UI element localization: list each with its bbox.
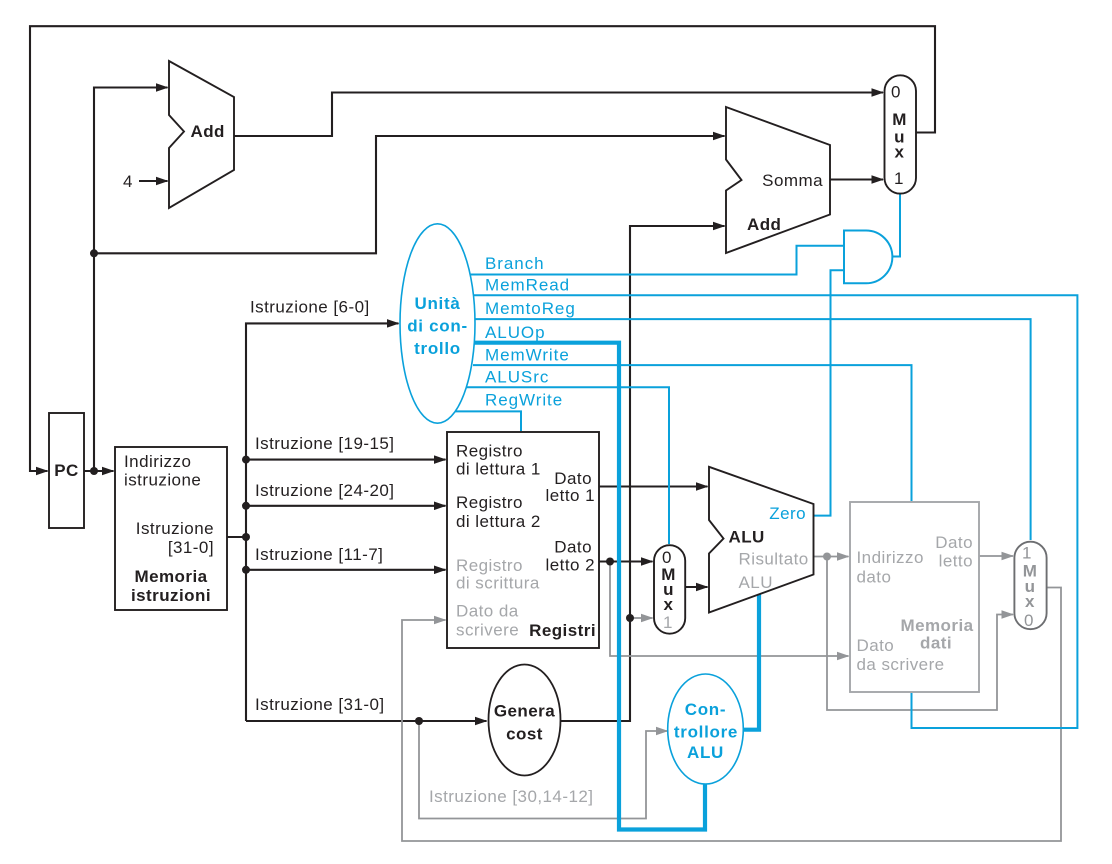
svg-text:Memoria: Memoria bbox=[134, 567, 207, 586]
wire Add output stepped to top Mux input 0 bbox=[234, 93, 883, 137]
wire Istruzione [31-0] to immediate generator bbox=[246, 720, 487, 722]
svg-text:x: x bbox=[895, 143, 905, 162]
svg-text:dati: dati bbox=[920, 634, 952, 653]
svg-text:MemWrite: MemWrite bbox=[485, 346, 570, 365]
junction dot PC output bbox=[90, 467, 98, 475]
svg-text:letto: letto bbox=[939, 552, 973, 571]
svg-text:MemRead: MemRead bbox=[485, 276, 570, 295]
svg-text:PC: PC bbox=[54, 461, 79, 480]
svg-text:Dato: Dato bbox=[935, 533, 973, 552]
junction dot instr 19-15 bbox=[242, 456, 250, 464]
wire cyan RegWrite signal to registers bbox=[455, 411, 521, 431]
svg-text:dato: dato bbox=[857, 568, 892, 587]
svg-text:trollore: trollore bbox=[674, 723, 738, 742]
svg-text:di lettura 1: di lettura 1 bbox=[456, 460, 541, 479]
svg-text:scrivere: scrivere bbox=[456, 621, 519, 640]
svg-text:ALUOp: ALUOp bbox=[485, 323, 546, 342]
svg-text:di scrittura: di scrittura bbox=[456, 574, 540, 593]
svg-text:RegWrite: RegWrite bbox=[485, 391, 563, 410]
ALU bbox=[709, 467, 814, 613]
svg-text:1: 1 bbox=[1022, 544, 1032, 563]
svg-text:0: 0 bbox=[1024, 611, 1034, 630]
svg-text:1: 1 bbox=[894, 169, 904, 188]
svg-text:Unità: Unità bbox=[415, 294, 461, 313]
immediate generator ellipse bbox=[489, 665, 561, 776]
junction dot instr 24-20 bbox=[242, 502, 250, 510]
mux top (PC source) bbox=[885, 75, 917, 193]
svg-text:istruzione: istruzione bbox=[124, 471, 201, 490]
wire gray Dato letto 2 down to data memory write data bbox=[610, 562, 849, 657]
svg-text:Istruzione [30,14-12]: Istruzione [30,14-12] bbox=[429, 787, 593, 806]
wire gray write-back from right mux to register write data bbox=[402, 588, 1061, 842]
svg-text:Registro: Registro bbox=[456, 556, 523, 575]
svg-text:Genera: Genera bbox=[494, 702, 555, 721]
svg-text:Istruzione [11-7]: Istruzione [11-7] bbox=[255, 545, 383, 564]
svg-text:da scrivere: da scrivere bbox=[857, 655, 945, 674]
wire PC value up to Add (vertical x=94) bbox=[94, 88, 168, 472]
wire immediate generator output up to Somma bottom input bbox=[561, 226, 725, 721]
svg-text:ALU: ALU bbox=[729, 528, 765, 547]
svg-text:x: x bbox=[1025, 592, 1035, 611]
wire instruction bus vertical with branch to control unit bbox=[246, 323, 399, 721]
svg-text:MemtoReg: MemtoReg bbox=[485, 299, 576, 318]
svg-text:Branch: Branch bbox=[485, 254, 545, 273]
svg-text:x: x bbox=[664, 595, 674, 614]
svg-text:Istruzione [24-20]: Istruzione [24-20] bbox=[255, 481, 394, 500]
junction dot gray ALU result bbox=[823, 553, 831, 561]
svg-text:cost: cost bbox=[506, 725, 543, 744]
junction dot instr 31-0 bottom bbox=[415, 717, 423, 725]
svg-text:istruzioni: istruzioni bbox=[131, 586, 211, 605]
wire cyan AND gate output to top mux select bbox=[893, 194, 901, 257]
junction dot instr 11-7 bbox=[242, 566, 250, 574]
svg-text:Dato da: Dato da bbox=[456, 602, 519, 621]
svg-text:1: 1 bbox=[663, 613, 673, 632]
svg-text:Con-: Con- bbox=[685, 700, 727, 719]
svg-text:Zero: Zero bbox=[769, 504, 806, 523]
svg-text:ALU: ALU bbox=[739, 573, 773, 592]
svg-text:Memoria: Memoria bbox=[900, 616, 973, 635]
ALU control ellipse bbox=[668, 674, 744, 784]
junction dot PC branch bbox=[90, 249, 98, 257]
wire cyan MemWrite signal to data memory top bbox=[473, 365, 912, 501]
svg-text:Indirizzo: Indirizzo bbox=[857, 548, 924, 567]
data memory box bbox=[850, 502, 979, 692]
svg-text:Somma: Somma bbox=[762, 171, 823, 190]
svg-text:di con-: di con- bbox=[407, 317, 468, 336]
wire Dato letto 2 to ALUSrc mux input 0 bbox=[599, 560, 653, 562]
wire gray immediate to ALUSrc mux input 1 bbox=[630, 617, 653, 619]
mux MemtoReg (right, gray) bbox=[1014, 542, 1046, 630]
svg-text:Istruzione [31-0]: Istruzione [31-0] bbox=[255, 695, 385, 714]
svg-text:Add: Add bbox=[191, 122, 225, 141]
svg-text:Dato: Dato bbox=[554, 538, 592, 557]
AND gate bbox=[844, 231, 892, 284]
wire instruction memory output stub bbox=[227, 536, 246, 538]
svg-text:Add: Add bbox=[747, 215, 781, 234]
svg-text:letto 1: letto 1 bbox=[546, 486, 595, 505]
wire Somma output to top Mux input 1 bbox=[830, 178, 883, 180]
wire PC feedback loop: mux output, top border, down left side into PC bbox=[30, 26, 935, 471]
svg-text:Istruzione [6-0]: Istruzione [6-0] bbox=[250, 298, 370, 317]
wire Istruzione [11-7] to write register bbox=[246, 569, 446, 571]
wire cyan MemtoReg signal to right mux select bbox=[474, 319, 1031, 540]
register PC bbox=[49, 413, 84, 528]
wire cyan MemRead signal to data memory bottom bbox=[473, 295, 1077, 728]
wire gray ALU result bypass to right mux input 0 bbox=[827, 557, 1013, 711]
junction dot immediate to mux bbox=[626, 614, 634, 622]
svg-text:letto 2: letto 2 bbox=[546, 556, 595, 575]
mux ALUSrc (left) bbox=[654, 545, 685, 634]
svg-text:Istruzione [19-15]: Istruzione [19-15] bbox=[255, 434, 394, 453]
svg-text:Istruzione: Istruzione bbox=[136, 519, 214, 538]
wire PC to Somma top input bbox=[94, 136, 725, 253]
svg-text:Risultato: Risultato bbox=[739, 550, 809, 569]
svg-text:Dato: Dato bbox=[857, 636, 895, 655]
wire Istruzione [19-15] to read register 1 bbox=[246, 459, 446, 461]
wire cyan Zero flag to AND gate bbox=[813, 270, 843, 515]
wire constant 4 into Add bbox=[139, 180, 168, 182]
wire gray ALU result to data memory address bbox=[813, 556, 849, 558]
svg-text:4: 4 bbox=[123, 172, 133, 191]
wire cyan Branch signal to AND gate bbox=[470, 246, 843, 275]
wire cyan thick ALU control output to ALU bbox=[742, 593, 759, 730]
junction dot dato letto 2 bbox=[606, 558, 614, 566]
svg-text:0: 0 bbox=[662, 548, 672, 567]
svg-text:Indirizzo: Indirizzo bbox=[124, 452, 191, 471]
svg-text:di lettura 2: di lettura 2 bbox=[456, 512, 541, 531]
control unit ellipse bbox=[400, 224, 475, 423]
svg-text:Registro: Registro bbox=[456, 493, 523, 512]
adder Somma (branch target) bbox=[726, 107, 830, 253]
wire Istruzione [24-20] to read register 2 bbox=[246, 505, 446, 507]
instruction memory box bbox=[115, 447, 227, 610]
svg-text:ALU: ALU bbox=[687, 743, 724, 762]
svg-text:M: M bbox=[892, 110, 907, 129]
wire gray data memory read data to right mux input 1 bbox=[979, 555, 1013, 557]
wire gray Istruzione [30,14-12] to ALU control bbox=[419, 721, 668, 819]
wire ALUSrc mux output to ALU bottom input bbox=[685, 586, 708, 588]
svg-text:trollo: trollo bbox=[414, 339, 461, 358]
svg-text:0: 0 bbox=[891, 82, 901, 101]
wire Dato letto 1 to ALU top input bbox=[599, 485, 708, 487]
wire cyan thick ALUOp signal to ALU control unit bbox=[473, 343, 705, 830]
svg-text:ALUSrc: ALUSrc bbox=[485, 368, 549, 387]
svg-text:[31-0]: [31-0] bbox=[168, 538, 214, 557]
svg-text:Registri: Registri bbox=[529, 621, 596, 640]
wire PC output to instruction memory bbox=[84, 470, 114, 472]
registers box bbox=[447, 432, 599, 648]
wire cyan ALUSrc signal to left mux select bbox=[466, 387, 669, 544]
svg-text:Registro: Registro bbox=[456, 442, 523, 461]
adder Add (PC+4) bbox=[169, 61, 234, 208]
junction dot instr out bbox=[242, 533, 250, 541]
